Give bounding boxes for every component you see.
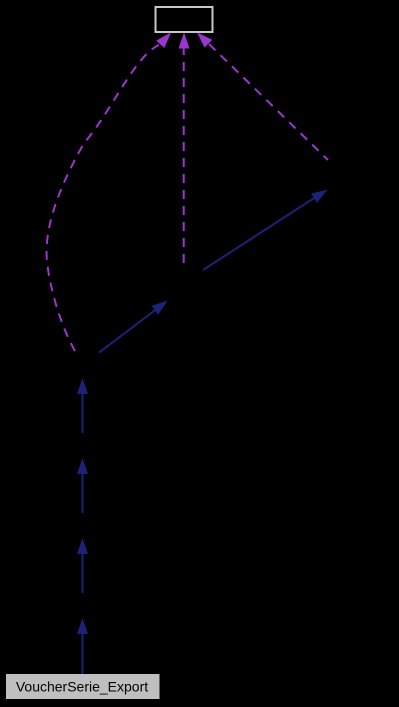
wire D2 shaft xyxy=(203,198,315,271)
arrowhead right dashed xyxy=(197,33,212,48)
svg-text:VoucherSerie_Export: VoucherSerie_Export xyxy=(16,679,148,695)
wire E2 shaft xyxy=(82,552,84,593)
edge blue E2 (N4 to N3) xyxy=(77,538,88,593)
arrowhead E4 xyxy=(77,378,88,394)
node VoucherSerie_Export xyxy=(6,674,160,699)
arrowhead E1 xyxy=(77,618,88,634)
wire vertical dashed xyxy=(183,46,185,270)
edge blue D2 (M1 to M2, diagonal) xyxy=(203,190,328,271)
wire E1 shaft xyxy=(82,632,84,674)
node top box (empty label) xyxy=(156,7,213,32)
arrowhead vertical dashed xyxy=(179,33,190,49)
edge purple dashed right diagonal (M2 to top box) xyxy=(197,33,328,161)
arrowhead curve xyxy=(156,33,171,49)
wire D1 shaft xyxy=(99,309,156,352)
arrowhead E2 xyxy=(77,538,88,554)
edge blue E3 (N3 to N2) xyxy=(77,458,88,513)
wire E3 shaft xyxy=(82,472,84,513)
edge blue E1 (box to node N4) xyxy=(77,618,88,674)
edge purple dashed vertical (M1 to top box) xyxy=(179,33,190,271)
arrowhead D1 xyxy=(152,301,168,315)
wire right dashed xyxy=(209,44,328,160)
edge purple dashed left curve (N1 to top box) xyxy=(47,33,171,352)
wire E4 shaft xyxy=(82,392,84,433)
arrowhead E3 xyxy=(77,458,88,474)
wire curve xyxy=(47,45,159,351)
edge blue D1 (N1 to M1, diagonal) xyxy=(99,301,168,353)
edge blue E4 (N2 to N1) xyxy=(77,378,88,433)
arrowhead D2 xyxy=(311,190,327,203)
